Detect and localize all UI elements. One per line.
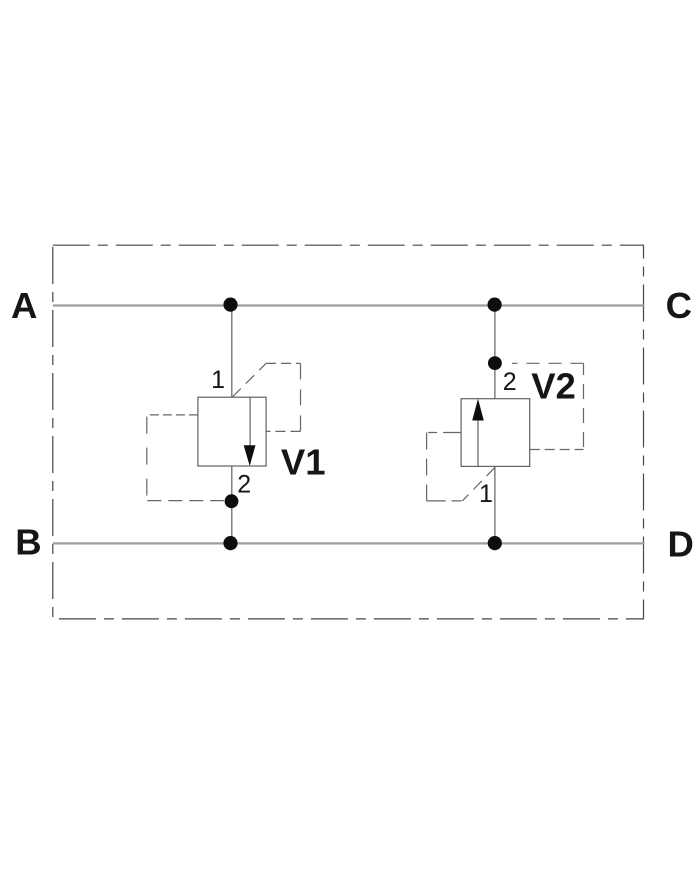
svg-text:D: D [668, 524, 694, 565]
svg-text:V1: V1 [281, 442, 326, 483]
svg-text:2: 2 [503, 368, 517, 396]
svg-text:V2: V2 [531, 366, 576, 407]
svg-text:2: 2 [237, 470, 251, 498]
svg-text:A: A [11, 285, 37, 326]
svg-text:C: C [666, 285, 692, 326]
svg-text:1: 1 [211, 366, 225, 394]
svg-text:1: 1 [479, 480, 493, 508]
svg-text:B: B [15, 522, 41, 563]
